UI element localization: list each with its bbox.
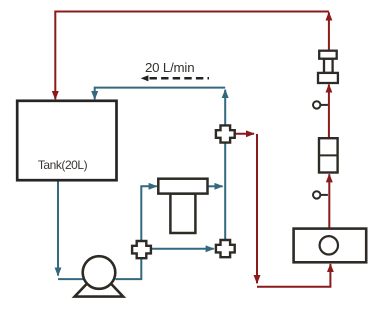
svg-text:Tank(20L): Tank(20L) [38,158,88,172]
svg-text:20 L/min: 20 L/min [145,60,194,75]
